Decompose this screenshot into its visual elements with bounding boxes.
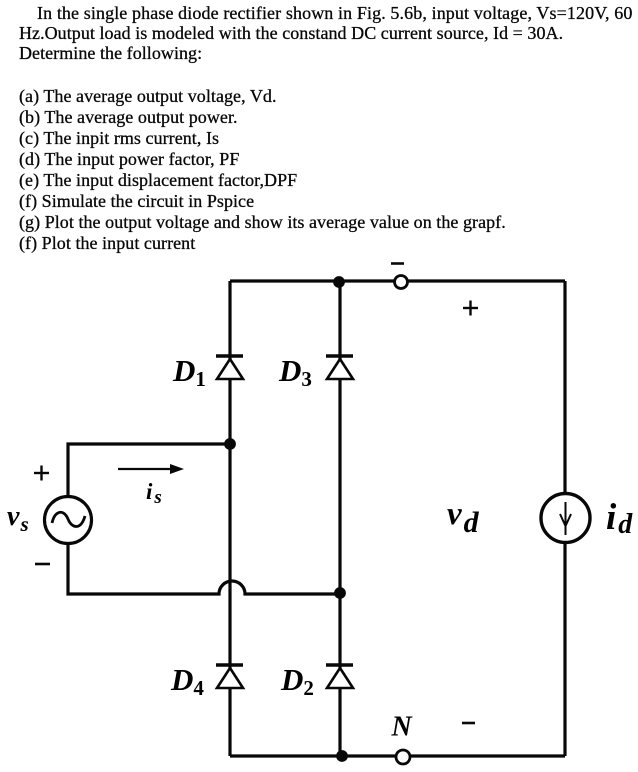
- voltage source vs: [45, 497, 92, 544]
- diode D2: [326, 665, 353, 688]
- label vd: [447, 496, 480, 539]
- svg-text:vs: vs: [7, 501, 29, 536]
- label N: [391, 712, 414, 743]
- wire bottom rail: [230, 754, 565, 757]
- wire source top lead: [68, 444, 230, 496]
- node dot source top to D1/D4 leg: [224, 438, 236, 450]
- wire right rail lower: [563, 542, 566, 756]
- polarity plus output top: [463, 301, 478, 316]
- wire source bottom lead with hop over left branch: [68, 544, 340, 594]
- current source id: [541, 494, 590, 543]
- polarity plus at source: [34, 466, 49, 481]
- diode D4: [216, 665, 243, 688]
- terminal open circle bottom (node N): [396, 750, 410, 764]
- wire right rail upper: [563, 281, 566, 495]
- svg-text:D3: D3: [278, 353, 312, 391]
- svg-text:vd: vd: [447, 496, 480, 539]
- label is: [146, 479, 162, 508]
- diode D1: [216, 356, 243, 379]
- svg-text:id: id: [606, 497, 633, 540]
- node dot top junction (D3 leg to top rail): [333, 276, 345, 288]
- polarity minus above top terminal: [391, 262, 404, 265]
- terminal open circle top: [395, 276, 408, 289]
- polarity minus output bottom: [462, 722, 475, 725]
- diode D3: [326, 356, 353, 379]
- label D3: [278, 353, 312, 391]
- label D2: [280, 662, 314, 700]
- node dot source bottom to D3/D2 leg: [334, 587, 346, 599]
- label vs: [7, 501, 29, 536]
- wire right bridge branch (D3/D2 leg): [338, 281, 341, 756]
- polarity minus at source: [35, 563, 50, 566]
- svg-text:D4: D4: [170, 662, 204, 700]
- svg-text:is: is: [146, 479, 162, 508]
- label D1: [172, 353, 206, 391]
- node dot bottom junction (D2 leg to bottom rail): [336, 750, 348, 762]
- arrow is current direction: [118, 464, 184, 474]
- svg-text:D2: D2: [280, 662, 314, 700]
- wire left bridge branch (D1/D4 leg): [228, 281, 231, 756]
- label id: [606, 497, 633, 540]
- svg-text:N: N: [391, 712, 414, 743]
- wire top rail: [230, 279, 565, 282]
- label D4: [170, 662, 204, 700]
- svg-text:D1: D1: [172, 353, 206, 391]
